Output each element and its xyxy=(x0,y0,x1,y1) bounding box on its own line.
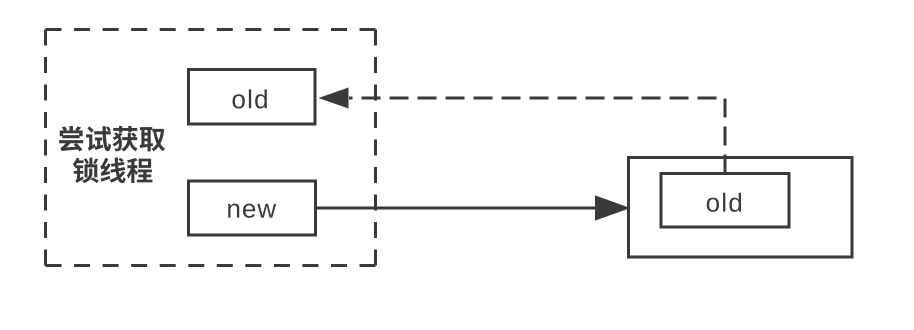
dashed arrow: right inner old -> left old box xyxy=(349,98,725,174)
box new (left bottom) xyxy=(189,181,316,235)
dashed container: 尝试获取锁线程 group xyxy=(46,30,376,266)
text old (left top) xyxy=(233,89,267,108)
box old (left top) xyxy=(189,70,316,125)
text old (right) xyxy=(707,193,741,212)
right outer container box xyxy=(629,158,853,258)
text new xyxy=(228,204,276,218)
solid arrow: new -> right container xyxy=(316,198,627,219)
label text line 2: 锁线程 xyxy=(73,158,153,184)
label text line 1: 尝试获取 xyxy=(59,126,165,151)
inner box old (right) xyxy=(661,174,789,228)
dashed arrow head xyxy=(319,88,349,109)
